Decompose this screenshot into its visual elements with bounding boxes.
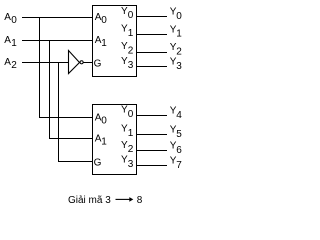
wire Y0 output bbox=[137, 16, 168, 18]
wire A2 branch vertical bbox=[58, 63, 60, 162]
caption arrow bbox=[116, 198, 131, 200]
svg-text:5: 5 bbox=[176, 129, 182, 140]
wire Y7 output bbox=[137, 165, 168, 167]
wire Y2 output bbox=[137, 52, 168, 54]
wire A1 input bbox=[22, 40, 93, 42]
svg-text:2: 2 bbox=[128, 144, 134, 155]
inverter U3 bubble bbox=[80, 61, 83, 64]
wire Y5 output bbox=[137, 134, 168, 136]
svg-text:A: A bbox=[4, 57, 11, 68]
wire Y4 output bbox=[137, 115, 168, 117]
svg-text:1: 1 bbox=[101, 38, 107, 49]
decoder U1 box bbox=[93, 6, 137, 77]
svg-text:0: 0 bbox=[11, 15, 17, 26]
svg-text:7: 7 bbox=[176, 160, 182, 171]
svg-text:4: 4 bbox=[176, 110, 182, 121]
svg-text:8: 8 bbox=[137, 195, 143, 206]
wire A0 branch vertical bbox=[39, 18, 41, 118]
svg-text:1: 1 bbox=[128, 28, 134, 39]
svg-text:Giải mã 3: Giải mã 3 bbox=[68, 195, 111, 206]
svg-text:1: 1 bbox=[11, 38, 17, 49]
svg-text:3: 3 bbox=[128, 60, 134, 71]
wire Y1 output bbox=[137, 34, 168, 36]
svg-text:0: 0 bbox=[176, 11, 182, 22]
decoder U2 box bbox=[93, 105, 137, 175]
svg-text:3: 3 bbox=[128, 159, 134, 170]
svg-text:A: A bbox=[4, 12, 11, 23]
wire inverter output to G pin U1 bbox=[84, 62, 93, 64]
wire A0 input bbox=[22, 17, 93, 19]
wire Y3 output bbox=[137, 66, 168, 68]
wire A0 branch to U2 bbox=[39, 117, 93, 119]
svg-text:G: G bbox=[94, 58, 102, 69]
svg-text:1: 1 bbox=[176, 29, 182, 40]
wire A1 branch to U2 bbox=[49, 138, 93, 140]
svg-text:2: 2 bbox=[11, 60, 17, 71]
wire Y6 output bbox=[137, 150, 168, 152]
svg-text:0: 0 bbox=[101, 115, 107, 126]
wire A2 branch to G pin U2 bbox=[58, 161, 93, 163]
svg-text:0: 0 bbox=[101, 15, 107, 26]
svg-text:1: 1 bbox=[128, 128, 134, 139]
svg-text:A: A bbox=[4, 35, 11, 46]
svg-text:0: 0 bbox=[128, 109, 134, 120]
svg-text:G: G bbox=[94, 157, 102, 168]
svg-text:6: 6 bbox=[176, 145, 182, 156]
inverter U3 triangle bbox=[69, 51, 80, 74]
svg-text:2: 2 bbox=[128, 46, 134, 57]
wire A2 input bbox=[22, 62, 69, 64]
wire A1 branch vertical bbox=[49, 41, 51, 139]
svg-text:0: 0 bbox=[128, 10, 134, 21]
svg-text:3: 3 bbox=[176, 61, 182, 72]
svg-text:1: 1 bbox=[101, 136, 107, 147]
svg-text:2: 2 bbox=[176, 46, 182, 57]
